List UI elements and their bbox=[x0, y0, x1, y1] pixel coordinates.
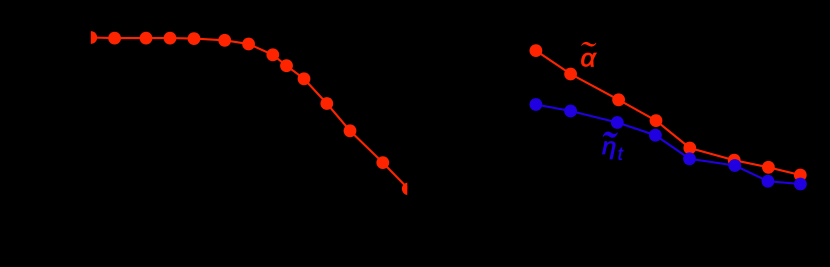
svg-text:η: η bbox=[602, 134, 616, 159]
left panel red curve bbox=[84, 31, 414, 195]
wire: left red polyline bbox=[91, 38, 409, 189]
markers: left red points bbox=[84, 31, 414, 195]
label alpha-tilde bbox=[581, 42, 598, 72]
wire: right red polyline bbox=[536, 51, 800, 175]
wire: right blue polyline bbox=[536, 105, 801, 185]
svg-text:α: α bbox=[581, 45, 598, 72]
label eta-tilde sub t bbox=[602, 131, 624, 164]
right panel blue eta curve bbox=[530, 98, 807, 190]
right panel red alpha curve bbox=[530, 44, 807, 181]
markers: right red points bbox=[530, 44, 807, 181]
markers: right blue points bbox=[530, 98, 807, 190]
